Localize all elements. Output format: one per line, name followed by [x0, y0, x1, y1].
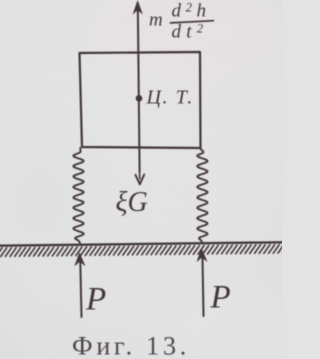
node C.T. center of gravity dot [136, 95, 143, 102]
wire vertical force line [138, 4, 140, 172]
ground line [0, 242, 282, 245]
arrowhead up (inertia force) [133, 1, 142, 14]
fraction bar [171, 21, 214, 23]
spring right [197, 148, 207, 243]
mass block (rectangle) [80, 52, 201, 148]
label C.T. [146, 87, 194, 109]
label m d2h/dt2 [149, 1, 211, 43]
label P left [85, 282, 106, 318]
spring left [73, 148, 83, 243]
label xi G [116, 187, 148, 218]
arrow P left [75, 253, 85, 317]
caption Fig. 13 [72, 332, 190, 359]
arrow P right [197, 249, 207, 316]
label P right [210, 280, 231, 316]
arrowhead down (weight force) [135, 172, 144, 184]
ground hatching [0, 245, 289, 257]
